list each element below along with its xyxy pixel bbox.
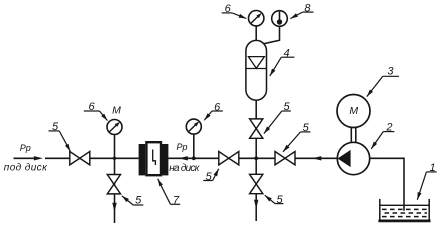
svg-text:3: 3 — [387, 66, 394, 78]
svg-text:под диск: под диск — [4, 163, 48, 174]
svg-text:на диск: на диск — [169, 163, 200, 174]
svg-text:M: M — [349, 105, 358, 117]
svg-text:Pp: Pp — [176, 142, 187, 152]
svg-text:Pp: Pp — [20, 143, 31, 153]
svg-text:M: M — [112, 105, 121, 117]
svg-text:8: 8 — [304, 3, 311, 15]
